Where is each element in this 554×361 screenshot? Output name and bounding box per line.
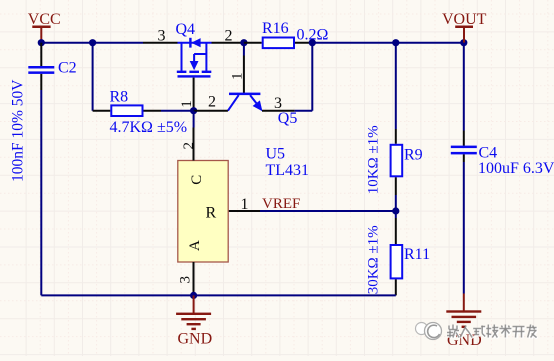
svg-text:C4: C4 — [479, 145, 498, 162]
node R16 right junction — [309, 39, 316, 46]
capacitor C4 pin top — [463, 131, 465, 146]
svg-text:4.7KΩ ±5%: 4.7KΩ ±5% — [110, 119, 188, 136]
node GND junction — [190, 292, 197, 299]
watermark logo and text — [416, 323, 428, 335]
svg-text:1: 1 — [179, 100, 195, 108]
wire R11 top — [395, 211, 397, 218]
svg-text:100uF 6.3V: 100uF 6.3V — [478, 160, 554, 177]
svg-text:C: C — [189, 175, 205, 185]
svg-text:Q4: Q4 — [176, 21, 196, 38]
resistor R8 pin 2 — [144, 110, 162, 112]
op-amp U5 pin 1 — [228, 210, 230, 212]
svg-text:Q5: Q5 — [278, 110, 298, 127]
svg-text:30KΩ ±1%: 30KΩ ±1% — [366, 225, 382, 294]
capacitor C2 pin bottom — [40, 74, 42, 90]
power symbol VCC — [32, 26, 50, 29]
svg-text:3: 3 — [158, 27, 166, 44]
wire top rail right segment — [312, 42, 464, 44]
ground GND right — [463, 294, 465, 312]
resistor R16 pin 1 — [244, 42, 262, 44]
wire R9 top — [395, 43, 397, 129]
resistor R11 — [391, 245, 403, 278]
resistor R8 — [111, 105, 142, 116]
svg-text:R16: R16 — [262, 20, 289, 37]
wire R8 branch vertical — [92, 43, 94, 111]
svg-text:R11: R11 — [404, 246, 430, 263]
capacitor C2 pin top — [40, 43, 42, 67]
svg-text:1: 1 — [241, 196, 249, 213]
wire R8 to node — [161, 110, 194, 112]
svg-text:C2: C2 — [58, 60, 77, 77]
wire left vertical — [40, 90, 42, 295]
svg-text:GND: GND — [178, 330, 213, 347]
transistor Q5 pin 3 — [262, 110, 295, 112]
svg-text:3: 3 — [178, 276, 194, 284]
op-amp U5 pin 2 — [193, 128, 195, 161]
ground GND left — [193, 295, 195, 313]
transistor Q5 pin 2 — [194, 110, 228, 112]
svg-text:VREF: VREF — [262, 196, 300, 212]
transistor Q4 pin 2 — [212, 42, 244, 44]
svg-text:R8: R8 — [110, 89, 129, 106]
wire C4 top — [463, 43, 465, 131]
resistor R9 pin 2 — [395, 177, 397, 195]
transistor Q5 pin 1 wire — [243, 43, 245, 56]
node R8 branch junction — [89, 39, 96, 46]
capacitor C2 — [28, 66, 54, 69]
resistor R9 pin 1 — [395, 129, 397, 144]
power symbol VOUT — [455, 25, 473, 28]
svg-text:100nF 10% 50V: 100nF 10% 50V — [10, 79, 27, 182]
resistor R16 pin 2 — [295, 42, 312, 44]
op-amp U5 body — [178, 161, 228, 263]
transistor Q4 pin 3 — [143, 42, 178, 44]
svg-text:10KΩ ±1%: 10KΩ ±1% — [366, 125, 382, 194]
svg-text:2: 2 — [181, 142, 197, 150]
wire node to U5 pin 2 — [193, 111, 195, 128]
node Q4 gate junction — [190, 107, 197, 114]
node Q4-Q5-R16 junction — [240, 39, 247, 46]
wire R9 bottom — [395, 195, 397, 211]
svg-text:VOUT: VOUT — [442, 11, 487, 28]
capacitor C4 — [451, 146, 477, 149]
resistor R8 pin 1 — [93, 110, 111, 112]
node R9 branch junction — [392, 39, 399, 46]
resistor R11 pin 1 — [395, 218, 397, 245]
node VREF junction — [392, 207, 399, 214]
svg-text:A: A — [187, 240, 203, 251]
wire top rail left segment — [41, 42, 143, 44]
svg-text:1: 1 — [230, 73, 246, 81]
transistor Q4 (P-MOSFET) — [178, 42, 212, 44]
transistor Q4 pin 1 (gate) — [193, 78, 195, 111]
svg-text:2: 2 — [225, 27, 233, 44]
svg-text:3: 3 — [274, 95, 282, 112]
svg-text:U5: U5 — [266, 146, 286, 163]
transistor Q5 pin 1 — [243, 56, 245, 94]
resistor R9 — [391, 145, 403, 177]
node VCC junction — [38, 39, 45, 46]
svg-text:VCC: VCC — [28, 11, 61, 28]
svg-text:R9: R9 — [404, 147, 423, 164]
transistor Q5 (BJT) — [229, 93, 260, 96]
resistor R11 pin 2 — [395, 279, 397, 295]
svg-text:2: 2 — [208, 94, 216, 111]
op-amp U5 pin 3 — [193, 262, 195, 295]
svg-text:TL431: TL431 — [266, 162, 310, 179]
svg-text:R: R — [206, 205, 217, 222]
wire Q5 emitter to R16 right — [295, 110, 313, 112]
wire C4 bottom — [463, 162, 465, 294]
node VOUT junction — [460, 39, 467, 46]
wire VREF — [260, 210, 396, 212]
wire bottom rail — [41, 294, 396, 296]
resistor R16 — [263, 38, 294, 49]
capacitor C4 pin bottom — [463, 154, 465, 162]
